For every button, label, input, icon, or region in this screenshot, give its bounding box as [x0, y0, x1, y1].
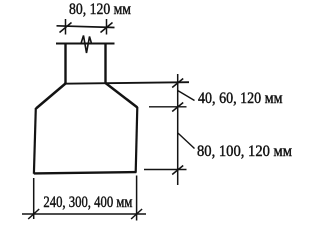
stem left wall: [64, 44, 66, 85]
right dim tick at shoulder: [172, 79, 183, 88]
break (zigzag) symbol: [81, 36, 92, 54]
svg-text:240, 300, 400 мм: 240, 300, 400 мм: [43, 194, 132, 211]
column cut line (top of stem): [56, 43, 115, 45]
bottom left extension line: [33, 178, 35, 219]
svg-text:80, 120 мм: 80, 120 мм: [69, 1, 131, 18]
footing bottom: [34, 172, 137, 173]
right dim tick at bottom: [172, 166, 183, 175]
bottom right tick: [131, 209, 142, 219]
bottom dimension line: [22, 213, 146, 215]
svg-text:40, 60, 120 мм: 40, 60, 120 мм: [198, 90, 283, 107]
right vertical dimension line: [177, 74, 179, 185]
left slope of footing: [36, 84, 66, 109]
bottom left tick: [28, 209, 39, 219]
top left extension line: [65, 19, 67, 35]
leader to label 40,60,120: [178, 91, 195, 101]
stem right wall: [104, 44, 106, 85]
top left tick: [60, 23, 72, 33]
shoulder line and upper extension line to dimension: [64, 82, 189, 84]
top dimension line: [57, 26, 115, 28]
right slope of footing: [106, 83, 138, 108]
top right tick: [101, 23, 113, 33]
middle extension line (right): [149, 106, 187, 108]
right dim tick at middle: [172, 103, 183, 112]
bottom right extension line: [136, 176, 138, 221]
footing left side: [34, 108, 36, 174]
svg-text:80, 100, 120 мм: 80, 100, 120 мм: [197, 143, 292, 160]
top right extension line: [106, 19, 108, 35]
bottom extension line (right): [144, 169, 187, 171]
footing right side: [136, 107, 138, 173]
leader to label 80,100,120: [178, 133, 195, 149]
